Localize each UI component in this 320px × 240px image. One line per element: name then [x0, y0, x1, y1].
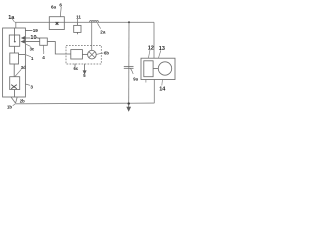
svg-text:19: 19 [33, 28, 39, 33]
svg-text:6c: 6c [74, 66, 79, 71]
svg-text:1a: 1a [8, 15, 15, 21]
svg-text:3: 3 [30, 84, 33, 89]
svg-text:2b: 2b [20, 99, 25, 104]
svg-text:3c: 3c [30, 46, 35, 51]
svg-text:4: 4 [42, 55, 45, 60]
svg-text:11: 11 [76, 15, 81, 20]
svg-text:14: 14 [159, 87, 166, 93]
svg-text:10: 10 [30, 35, 36, 41]
svg-text:1b: 1b [7, 105, 12, 110]
svg-text:9a: 9a [133, 76, 138, 81]
svg-text:2a: 2a [100, 29, 106, 34]
svg-text:12: 12 [148, 46, 154, 52]
svg-text:1: 1 [31, 56, 34, 61]
svg-text:13: 13 [159, 46, 165, 52]
svg-text:6a: 6a [51, 5, 57, 10]
svg-text:3d: 3d [21, 65, 26, 70]
svg-text:6: 6 [59, 3, 62, 8]
svg-text:6b: 6b [104, 50, 109, 55]
svg-text:5: 5 [83, 73, 86, 78]
